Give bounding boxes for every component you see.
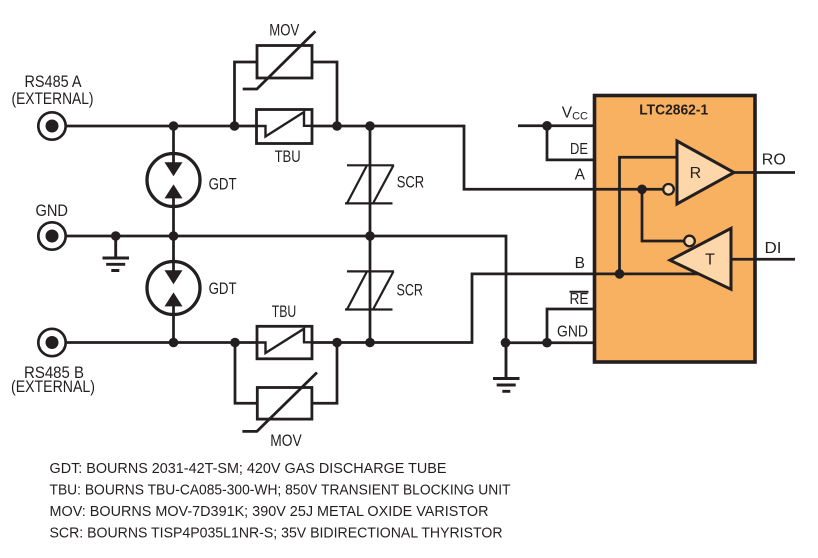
svg-text:RS485 A: RS485 A [25, 73, 82, 91]
wire DE branch [547, 126, 594, 160]
svg-text:B: B [575, 255, 585, 272]
node R input bubble [663, 184, 674, 195]
wire G2 bottom stub [172, 306, 175, 343]
terminal GND [38, 222, 65, 249]
node B-SCR junction [365, 338, 375, 348]
ground symbol 1 [103, 236, 130, 271]
pin RE overline [570, 291, 589, 293]
svg-text:R: R [690, 165, 702, 182]
scr SCR1 symbol [345, 165, 394, 203]
terminal RS485 B [38, 329, 65, 356]
node GND-symbol1 junction [111, 231, 121, 241]
node B-GDT junction [169, 338, 179, 348]
svg-text:DE: DE [570, 141, 588, 158]
svg-text:DI: DI [765, 240, 782, 257]
varistor MOV2 diagonal [242, 373, 317, 432]
op-amp T driver triangle [670, 228, 731, 289]
wire net A: terminal to TBU [66, 125, 256, 128]
tbu TBU1 body [257, 110, 313, 144]
node GND-GDT junction [169, 231, 179, 241]
svg-text:SCR: SCR [397, 281, 424, 299]
node VCC junction [542, 121, 552, 131]
node A internal junction [637, 185, 647, 195]
terminal RS485 A [38, 112, 65, 139]
wire SCR2 vertical [369, 236, 372, 343]
gdt G1 circle [147, 154, 200, 207]
gdt G2 top arrow [165, 270, 183, 284]
ground symbol 2 [493, 343, 520, 392]
gdt G1 top arrow [165, 162, 183, 176]
wire A line inside IC to receiver input [594, 188, 668, 191]
node B internal junction [615, 269, 625, 279]
varistor MOV1 diagonal [243, 31, 316, 89]
node A-SCR junction [365, 121, 375, 131]
wire VCC net [518, 124, 593, 127]
wire net A: TBU to IC pin A [313, 126, 594, 189]
svg-text:GDT: BOURNS 2031-42T-SM; 420V: GDT: BOURNS 2031-42T-SM; 420V GAS DISCHA… [50, 461, 447, 477]
svg-text:TBU: TBU [275, 148, 301, 166]
node B-branch right junction [332, 338, 342, 348]
node GND-RE junction [542, 338, 552, 348]
node T enable bubble [684, 236, 695, 247]
wire net GND: terminal to IC [66, 236, 594, 343]
node A-GDT junction [169, 121, 179, 131]
svg-text:LTC2862-1: LTC2862-1 [639, 103, 708, 119]
wire MOV2 parallel branch [235, 343, 337, 404]
wire B riser to receiver upper input [620, 157, 678, 274]
svg-text:TBU: TBU [272, 303, 297, 321]
tbu TBU2 symbol [256, 329, 313, 353]
svg-text:GDT: GDT [209, 176, 237, 194]
svg-text:GDT: GDT [209, 280, 237, 298]
wire G1 top stub [172, 126, 175, 163]
svg-text:T: T [705, 252, 715, 269]
wire RO output [734, 171, 795, 174]
svg-text:MOV: BOURNS MOV-7D391K; 390V 2: MOV: BOURNS MOV-7D391K; 390V 25J METAL O… [50, 504, 489, 520]
node B-branch left junction [230, 338, 240, 348]
varistor MOV2 body [257, 388, 312, 420]
wire MOV1 parallel branch [235, 62, 338, 126]
node GND-symbol2 junction [501, 338, 511, 348]
gdt G2 circle [147, 262, 200, 315]
tbu TBU1 symbol [256, 112, 313, 137]
svg-text:GND: GND [36, 202, 69, 220]
wire net B: terminal to TBU2 [66, 341, 256, 344]
svg-text:SCR: SCR [397, 174, 425, 192]
gdt G2 bottom arrow [165, 292, 183, 306]
wire SCR1 vertical [369, 126, 372, 236]
gdt G1 bottom arrow [165, 184, 183, 198]
wire B line inside IC to driver output [594, 273, 699, 276]
svg-text:(EXTERNAL): (EXTERNAL) [11, 378, 95, 396]
scr SCR2 symbol [345, 271, 394, 309]
op-amp R receiver triangle [677, 141, 734, 204]
varistor MOV1 body [257, 46, 312, 79]
node GND-SCR junction [365, 231, 375, 241]
wire G2 top stub [172, 236, 175, 271]
node A-branch left junction [230, 121, 240, 131]
op-amp U1 LTC2862-1 IC body [595, 96, 756, 363]
wire G1 bottom stub [172, 198, 175, 236]
svg-text:RE: RE [570, 291, 589, 308]
svg-text:A: A [575, 167, 586, 184]
svg-text:(EXTERNAL): (EXTERNAL) [12, 90, 94, 108]
svg-text:TBU: BOURNS TBU-CA085-300-WH;: TBU: BOURNS TBU-CA085-300-WH; 850V TRANS… [50, 483, 511, 499]
node A-branch right junction [332, 121, 342, 131]
svg-text:RO: RO [762, 151, 786, 168]
svg-text:SCR: BOURNS TISP4P035L1NR-S; 3: SCR: BOURNS TISP4P035L1NR-S; 35V BIDIREC… [50, 526, 503, 542]
tbu TBU2 body [257, 326, 312, 359]
svg-text:GND: GND [557, 323, 588, 340]
svg-text:MOV: MOV [269, 21, 299, 39]
wire net B: TBU2 to IC pin B [313, 274, 594, 343]
wire DI input [731, 258, 795, 261]
wire A junction down to driver bubble [642, 189, 689, 241]
wire RE branch riser [547, 309, 594, 343]
svg-text:MOV: MOV [270, 432, 302, 450]
